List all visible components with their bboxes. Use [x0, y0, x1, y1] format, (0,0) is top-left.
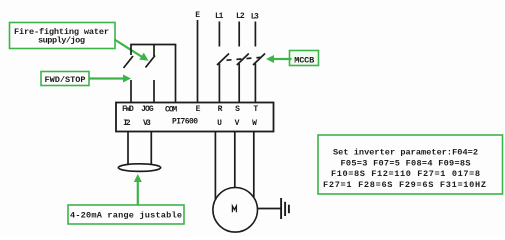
annotation box: Fire-fighting water supply/jog	[10, 23, 116, 49]
breaker pole L3 blade	[253, 54, 265, 66]
ground	[281, 198, 289, 219]
switch FWD: blade	[124, 56, 134, 68]
breaker pole L1 blade	[217, 54, 229, 66]
svg-text:COM: COM	[165, 105, 177, 114]
motor M	[213, 188, 258, 233]
svg-text:FWD: FWD	[122, 105, 134, 114]
breaker pole L2 blade	[237, 54, 249, 66]
svg-text:E: E	[195, 11, 200, 20]
svg-text:F05=3 F07=5 F08=4 F09=8S: F05=3 F07=5 F08=4 F09=8S	[341, 158, 471, 168]
svg-text:L2: L2	[236, 12, 245, 21]
svg-text:W: W	[252, 119, 257, 128]
svg-text:I2: I2	[123, 119, 131, 128]
wire: E to inverter terminal E	[197, 20, 199, 103]
wire: L3 lower to terminal T	[254, 64, 256, 103]
svg-text:V: V	[235, 119, 240, 128]
wire: top bus of FWD/JOG switch circuit	[130, 44, 176, 46]
breaker mechanical linkage (dashed)	[227, 57, 264, 60]
svg-text:MCCB: MCCB	[294, 55, 314, 65]
arrow from FWD/STOP box to FWD switch contact	[89, 75, 131, 83]
svg-text:supply/jog: supply/jog	[38, 35, 85, 45]
wire: JOG contact to JOG terminal	[153, 80, 155, 103]
transducer (4-20mA sensor) ellipse	[118, 164, 160, 172]
wire: motor to ground	[258, 208, 282, 210]
wire: FWD contact to FWD terminal	[130, 80, 132, 103]
wire: I2 terminal to transducer	[127, 132, 129, 166]
switch FWD: upper stub	[130, 45, 132, 56]
svg-text:L3: L3	[251, 13, 259, 22]
wire: L1 lower to terminal R	[218, 64, 220, 103]
annotation box: 4-20mA range justable	[68, 205, 184, 224]
svg-text:U: U	[217, 119, 222, 128]
svg-text:S: S	[235, 105, 240, 114]
switch JOG: blade	[146, 56, 156, 68]
svg-text:L1: L1	[215, 12, 224, 21]
svg-text:F10=8S F12=110 F27=1 017=8: F10=8S F12=110 F27=1 017=8	[331, 169, 480, 179]
switch JOG: upper stub	[153, 45, 155, 57]
arrow from MCCB box to breaker	[266, 55, 292, 63]
wire: V terminal to motor	[234, 132, 236, 189]
svg-text:Set inverter parameter:F04=2: Set inverter parameter:F04=2	[333, 148, 478, 158]
svg-text:R: R	[218, 105, 223, 114]
svg-text:PI7600: PI7600	[172, 117, 198, 126]
wire: L2 upper	[238, 22, 240, 47]
svg-text:E: E	[196, 105, 201, 114]
svg-text:F27=1 F28=6S F29=6S F31=10H: F27=1 F28=6S F29=6S F31=10HZ	[323, 180, 486, 190]
svg-text:T: T	[253, 105, 258, 114]
svg-text:V3: V3	[143, 119, 151, 128]
arrow from 4-20mA box to transducer	[134, 174, 142, 205]
annotation box: inverter parameter settings	[318, 135, 503, 194]
wire: U terminal to motor	[214, 132, 216, 201]
svg-text:JOG: JOG	[141, 105, 154, 114]
annotation box: MCCB	[290, 51, 319, 66]
annotation box: FWD/STOP	[41, 72, 89, 86]
wire: L3 upper	[254, 22, 256, 47]
wire: V3 terminal to transducer	[150, 132, 152, 166]
wire: bus to COM terminal	[175, 45, 177, 103]
arrow from fire-fighting box to JOG switch	[115, 40, 149, 61]
wire: L2 lower to terminal S	[238, 64, 240, 103]
wire: L1 upper	[218, 22, 220, 47]
svg-text:FWD/STOP: FWD/STOP	[45, 75, 86, 85]
wire: W terminal to motor	[253, 132, 255, 199]
inverter U1: PI7600 body	[116, 103, 274, 132]
svg-text:4-20mA range justable: 4-20mA range justable	[70, 211, 182, 221]
